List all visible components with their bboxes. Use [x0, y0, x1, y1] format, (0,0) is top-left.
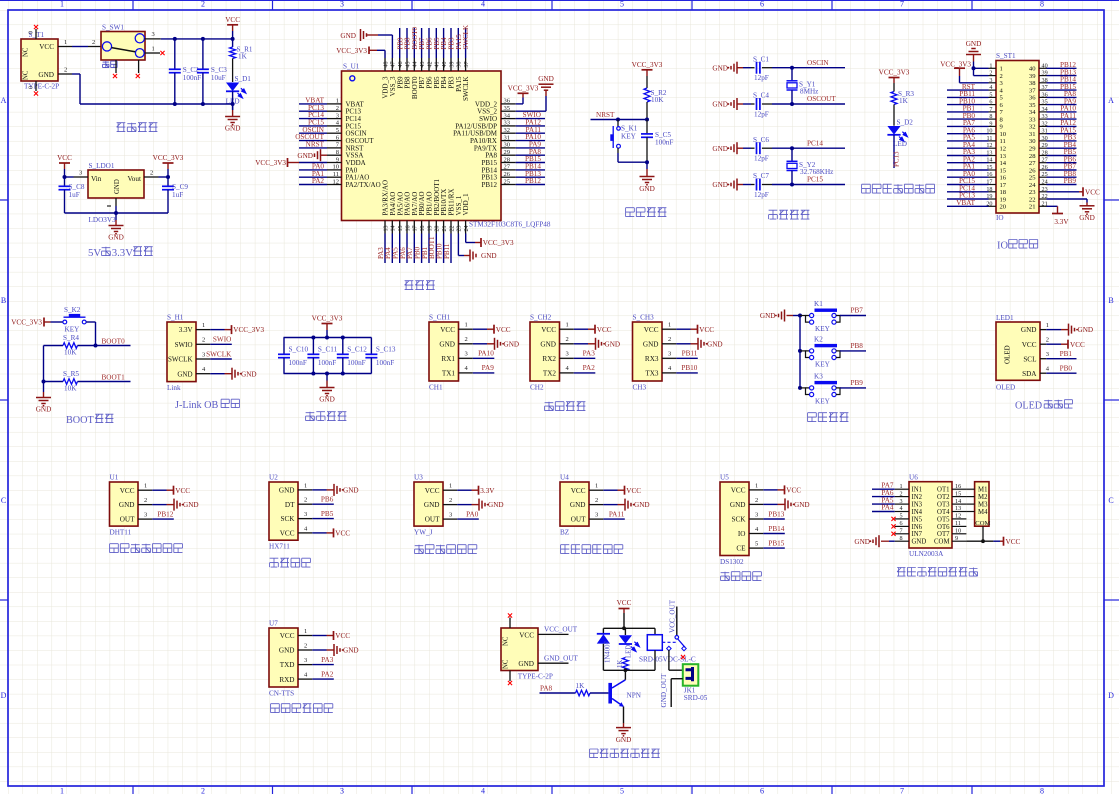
wire collector to relay rail: [624, 670, 626, 680]
wire and net label PA9: [516, 147, 545, 149]
svg-text:1: 1: [60, 787, 64, 794]
U1 left pin 12 PA2/TX/AO: [327, 184, 342, 186]
svg-text:7: 7: [900, 528, 903, 535]
wire and net label PA7: [947, 125, 989, 127]
svg-text:GND: GND: [488, 501, 504, 509]
svg-text:OT5: OT5: [937, 516, 950, 523]
U5 pin 4 IO: [749, 533, 763, 535]
wire and net label PA10: [516, 140, 545, 142]
wire PC14: [772, 147, 845, 149]
svg-text:U4: U4: [560, 474, 569, 482]
capacitor C5 100nF: [646, 120, 648, 134]
zone ticks and numbers top: [132, 0, 134, 10]
wire and net label PA0: [947, 176, 989, 178]
svg-text:PA2: PA2: [583, 364, 596, 372]
wire and net label PA6: [947, 133, 989, 135]
svg-text:U3: U3: [414, 474, 423, 482]
U6 pin 7 IN7: [895, 533, 909, 535]
U1 top pin 45 PB8: [406, 58, 408, 71]
svg-text:PA3: PA3: [321, 656, 334, 664]
no-connect marker: [891, 532, 895, 536]
svg-text:PA11: PA11: [609, 510, 625, 518]
svg-text:ULN2003A: ULN2003A: [909, 550, 944, 558]
ST1 pin 23 right: [1039, 191, 1047, 193]
wire and net label PB5: [1047, 155, 1077, 157]
U3 pin 2 GND: [443, 504, 457, 506]
U4 pin 1 VCC: [589, 489, 603, 491]
svg-text:10K: 10K: [64, 349, 77, 357]
svg-text:1: 1: [60, 0, 64, 9]
filter top rail: [284, 337, 372, 339]
connector T1 TYPE-C-2P body: [21, 39, 58, 81]
svg-text:RX2: RX2: [542, 355, 556, 363]
S_CH2 pin 2 GND: [560, 343, 574, 345]
wire SW1 pin3 to VCC rail: [161, 38, 233, 40]
svg-text:SWIO: SWIO: [175, 341, 193, 349]
svg-text:1K: 1K: [899, 97, 909, 105]
U1 bottom pin 23 VSS_1: [457, 221, 459, 234]
wire and net label PB8: [406, 28, 408, 58]
wire and net label PA9: [473, 372, 495, 374]
svg-text:S_K1: S_K1: [621, 125, 638, 133]
ground symbol power circuit: [232, 104, 234, 110]
svg-text:GND: GND: [183, 501, 199, 509]
svg-text:PA4: PA4: [881, 504, 894, 512]
push button K3: [800, 387, 806, 389]
wire and net label PB3: [1047, 140, 1077, 142]
ground at U2 pin 1: [312, 489, 326, 491]
svg-text:1N4007: 1N4007: [604, 640, 611, 663]
svg-text:3.3V: 3.3V: [480, 487, 495, 495]
ST1 pin 24 right: [1039, 184, 1047, 186]
ST1 pin 1 left: [989, 67, 997, 69]
LED1 pin 3 SCL: [1040, 358, 1046, 360]
svg-text:CH3: CH3: [633, 384, 647, 392]
title 语音播报模块: [271, 704, 280, 713]
svg-text:VCC: VCC: [175, 487, 190, 495]
svg-text:14: 14: [1000, 160, 1007, 167]
svg-text:KEY: KEY: [815, 325, 831, 333]
svg-text:5V: 5V: [88, 247, 101, 259]
svg-text:NC: NC: [503, 659, 510, 669]
regulator LDO1 body: [88, 170, 144, 198]
ST1 pin 11 left: [989, 140, 997, 142]
svg-text:GND: GND: [854, 538, 870, 546]
ST1 pin 28 right: [1039, 155, 1047, 157]
U6 pin 16 OT1: [952, 488, 966, 490]
wire U1 pin 24 VDD_1 to VCC_3V3: [465, 234, 467, 243]
svg-text:PA2/TX/AO: PA2/TX/AO: [346, 181, 381, 189]
U7 pin 2 GND: [298, 649, 312, 651]
svg-text:CE: CE: [736, 545, 746, 553]
svg-text:VCC_OUT: VCC_OUT: [669, 599, 677, 633]
S_H1 pin 1 3.3V: [196, 329, 210, 331]
ST1 pin 7 left: [989, 111, 997, 113]
wire and net label PA10: [473, 357, 495, 359]
U7 pin 1 VCC: [298, 635, 312, 637]
U5 pin 1 VCC: [749, 489, 763, 491]
svg-text:1: 1: [465, 322, 468, 329]
svg-text:5: 5: [620, 787, 624, 794]
wire BOOT0 net: [78, 345, 131, 347]
svg-text:1: 1: [595, 483, 598, 490]
svg-text:2: 2: [900, 490, 903, 497]
S_CH3 pin 4 TX3: [662, 372, 676, 374]
svg-text:VCC: VCC: [335, 530, 350, 538]
svg-text:GND: GND: [279, 487, 295, 495]
svg-text:13: 13: [383, 226, 389, 232]
wire and net label PB12: [152, 518, 174, 520]
U1 bottom pin 16 PA6/AO: [406, 221, 408, 234]
U1 pin 3 OUT: [138, 518, 152, 520]
T1 pin 2 GND: [58, 73, 72, 75]
ground symbol boot: [43, 382, 45, 393]
wire and net label PA4: [872, 511, 895, 513]
wire and net label PA3: [947, 155, 989, 157]
svg-text:1: 1: [152, 46, 155, 53]
svg-text:PB11: PB11: [682, 350, 698, 358]
svg-text:2: 2: [668, 336, 671, 343]
svg-text:VCC: VCC: [731, 487, 746, 495]
S_CH1 pin 2 GND: [459, 343, 473, 345]
svg-text:40: 40: [1029, 66, 1036, 73]
U6 pin 11 OT6: [952, 525, 966, 527]
svg-text:IN2: IN2: [912, 494, 923, 501]
svg-text:8: 8: [336, 149, 339, 156]
title 主芯片: [405, 281, 414, 290]
wire and net label PA4: [947, 147, 989, 149]
svg-text:1: 1: [144, 483, 147, 490]
svg-text:LED1: LED1: [996, 314, 1014, 322]
wire and net label PB10: [947, 104, 989, 106]
title 四相五线步进电机: [897, 568, 905, 577]
svg-text:47: 47: [391, 62, 397, 68]
title 滤波电路: [306, 412, 315, 421]
svg-text:3: 3: [304, 657, 307, 664]
svg-text:25: 25: [1029, 175, 1036, 182]
svg-text:16: 16: [955, 483, 961, 490]
U6 pin 1 IN1: [895, 488, 909, 490]
U1 right pin 32 PA11/USB/DM: [501, 132, 516, 134]
wire and net label PB11: [676, 357, 698, 359]
svg-text:GND: GND: [712, 145, 728, 153]
svg-text:7: 7: [989, 106, 992, 113]
svg-text:20: 20: [1000, 204, 1007, 211]
module S_CH1 CH1 body: [429, 322, 459, 381]
svg-text:SWIO: SWIO: [213, 336, 231, 344]
svg-text:PC13: PC13: [892, 151, 900, 167]
svg-text:16: 16: [1000, 175, 1007, 182]
U1 left pin 4 PC15: [327, 125, 342, 127]
title 电源电路: [117, 123, 126, 132]
svg-text:PB8: PB8: [851, 342, 864, 350]
svg-text:LED: LED: [626, 645, 633, 658]
wire and net label PA15: [1047, 133, 1077, 135]
wire and net label PA7: [413, 234, 415, 264]
wire and net label PB7: [421, 28, 423, 58]
svg-text:2: 2: [201, 787, 205, 794]
svg-text:RX1: RX1: [441, 355, 455, 363]
U1 bottom pin 14 PA4/AO: [391, 221, 393, 234]
svg-text:42: 42: [427, 62, 433, 68]
relay coil SRD-05VDC-SL-C: [654, 628, 656, 634]
svg-text:S_H1: S_H1: [167, 314, 184, 322]
wire BOOT1 net: [78, 381, 131, 383]
svg-text:VDD_1: VDD_1: [462, 193, 470, 216]
svg-text:PB7: PB7: [851, 307, 864, 315]
svg-text:3: 3: [304, 511, 307, 518]
U1 bottom pin 21 PB10/TX: [443, 221, 445, 234]
wire and net label PC15: [947, 184, 989, 186]
svg-text:3: 3: [595, 512, 598, 519]
svg-text:1: 1: [304, 628, 307, 635]
svg-text:2: 2: [304, 642, 307, 649]
svg-text:GND: GND: [707, 340, 723, 348]
svg-text:10uF: 10uF: [211, 74, 226, 82]
svg-text:TYPE-C-2P: TYPE-C-2P: [518, 673, 553, 681]
ST1 pin 8 left: [989, 118, 997, 120]
svg-text:6: 6: [989, 99, 992, 106]
capacitor C9 1uF: [167, 177, 169, 186]
U1 top pin 41 PB5: [435, 58, 437, 71]
power port VCC at S_CH3 pin 1: [676, 328, 690, 330]
svg-text:22: 22: [449, 226, 455, 232]
svg-text:10: 10: [955, 528, 961, 535]
wire and net label PA9: [1047, 104, 1077, 106]
wire and net label SWIO: [516, 118, 545, 120]
svg-text:K1: K1: [814, 300, 823, 308]
U1 top pin 44 BOOT0: [413, 58, 415, 71]
svg-text:4: 4: [481, 787, 485, 794]
svg-text:14: 14: [391, 226, 397, 232]
svg-text:11: 11: [1000, 138, 1006, 145]
svg-text:PA2: PA2: [321, 670, 334, 678]
svg-text:SWCLK: SWCLK: [462, 25, 470, 50]
wire and net label SWIO: [210, 343, 232, 345]
ground at U1 pin 2: [152, 504, 166, 506]
svg-text:1: 1: [900, 483, 903, 490]
svg-text:C: C: [1, 496, 6, 505]
svg-text:8: 8: [989, 113, 992, 120]
ST1 pin 3 left: [989, 82, 997, 84]
title 液位检测模块: [415, 545, 424, 554]
svg-text:27: 27: [504, 164, 511, 171]
ST1 pin 13 left: [989, 155, 997, 157]
svg-text:12pF: 12pF: [754, 191, 769, 199]
U1 top pin 46 PB9: [399, 58, 401, 71]
ground at ST1 pins 1-2: [966, 54, 981, 56]
wire and net label PB10: [443, 234, 445, 264]
svg-text:35: 35: [504, 105, 511, 112]
svg-text:39: 39: [449, 62, 455, 68]
power port VCC at ST1 pin 23: [1047, 191, 1080, 193]
svg-text:IO: IO: [738, 530, 746, 538]
svg-text:KEY: KEY: [65, 326, 81, 334]
wire and net label PA0: [457, 518, 479, 520]
header ST1 body: [996, 61, 1039, 214]
svg-text:11: 11: [333, 171, 339, 178]
SW1 pin 3: [144, 38, 160, 40]
svg-text:24: 24: [464, 226, 470, 232]
svg-text:1: 1: [304, 482, 307, 489]
svg-text:37: 37: [1029, 87, 1036, 94]
svg-text:5: 5: [336, 127, 339, 134]
svg-text:GND: GND: [1021, 326, 1037, 334]
svg-text:VCC: VCC: [699, 326, 714, 334]
title 红外避障模块: [561, 545, 570, 554]
svg-text:NC: NC: [23, 47, 30, 57]
U3 pin 3 OUT: [443, 518, 457, 520]
svg-text:PB1: PB1: [1060, 350, 1073, 358]
U5 pin 3 SCK: [749, 518, 763, 520]
svg-text:3: 3: [449, 512, 452, 519]
wire relay NO contact to JK1: [668, 650, 670, 670]
key bus wire: [799, 316, 801, 388]
svg-text:B: B: [1108, 296, 1113, 305]
svg-text:K3: K3: [814, 372, 823, 380]
transistor NPN: [608, 683, 612, 704]
T2 bottom no-connect pin: [509, 671, 511, 682]
svg-text:VCC_3V3: VCC_3V3: [940, 61, 971, 69]
svg-text:PA8: PA8: [540, 684, 553, 692]
svg-text:COM: COM: [975, 520, 990, 527]
wire and net label PB0: [1046, 372, 1076, 374]
svg-text:S_ST1: S_ST1: [996, 52, 1016, 60]
ST1 pin 9 left: [989, 125, 997, 127]
U6 pin 3 IN3: [895, 503, 909, 505]
wire and net label PB14: [763, 533, 785, 535]
svg-text:SCK: SCK: [281, 515, 296, 523]
svg-text:10: 10: [333, 164, 340, 171]
wire and net label PB9: [840, 387, 866, 389]
svg-text:S_C12: S_C12: [347, 345, 367, 353]
svg-text:S_C13: S_C13: [376, 345, 396, 353]
title 按键电路: [808, 413, 817, 422]
svg-text:GND: GND: [38, 71, 54, 79]
svg-text:9: 9: [989, 120, 992, 127]
svg-text:5: 5: [989, 91, 992, 98]
svg-text:GND: GND: [504, 340, 520, 348]
svg-text:A: A: [1108, 96, 1114, 105]
svg-text:2: 2: [1046, 337, 1049, 344]
module U5 DS1302 body: [720, 482, 749, 556]
no-connect marker: [891, 524, 895, 528]
svg-text:1K: 1K: [617, 660, 624, 668]
ST1 pin 32 right: [1039, 125, 1047, 127]
ground at U4 pin 2: [603, 504, 617, 506]
wire and net label PA2: [947, 162, 989, 164]
ground at ST1 pin 22: [1047, 198, 1088, 200]
resistor R1 1K: [232, 39, 234, 47]
wire and net label PA8: [516, 154, 545, 156]
svg-text:15: 15: [398, 226, 404, 232]
svg-text:39: 39: [1029, 73, 1036, 80]
U1 bottom pin 18 PB0/AO: [421, 221, 423, 234]
wire and net label PC14: [299, 118, 327, 120]
svg-text:GND: GND: [639, 185, 655, 193]
U1 top pin 42 PB6: [428, 58, 430, 71]
wire GND return rail: [72, 73, 80, 75]
svg-text:PA10: PA10: [478, 350, 494, 358]
svg-text:1: 1: [336, 98, 339, 105]
wire and net label PB0: [421, 234, 423, 264]
ST1 pin 5 left: [989, 96, 997, 98]
svg-text:16: 16: [405, 226, 411, 232]
svg-text:PC15: PC15: [807, 176, 823, 184]
svg-text:GND: GND: [634, 501, 650, 509]
svg-text:GND_OUT: GND_OUT: [544, 655, 579, 663]
U1 right pin 30 PA9/TX: [501, 147, 516, 149]
U1 right pin 27 PB14: [501, 169, 516, 171]
svg-text:3: 3: [340, 787, 344, 794]
title 程序运行指示灯: [862, 184, 871, 193]
svg-text:48: 48: [383, 62, 389, 68]
resistor R5 10K: [44, 381, 64, 383]
svg-text:9: 9: [955, 535, 958, 542]
wire and net label PA6: [406, 234, 408, 264]
capacitor C4 12pF: [751, 103, 755, 105]
power port 3.3V at ST1 pin 21: [1047, 205, 1058, 207]
svg-text:2: 2: [465, 336, 468, 343]
svg-text:1: 1: [64, 39, 67, 46]
U1 right pin 31 PA10/RX: [501, 140, 516, 142]
svg-text:36: 36: [1029, 95, 1036, 102]
svg-text:4: 4: [900, 505, 903, 512]
svg-text:3: 3: [755, 511, 758, 518]
svg-text:J-Link OB: J-Link OB: [175, 400, 219, 411]
wire motor COM to VCC: [982, 526, 984, 541]
wire and net label PB13: [763, 518, 785, 520]
svg-text:12pF: 12pF: [754, 111, 769, 119]
push button K1 reset: [617, 120, 619, 127]
svg-text:2: 2: [989, 70, 992, 77]
svg-text:GND: GND: [570, 501, 586, 509]
svg-text:VCC: VCC: [39, 43, 54, 51]
title 时钟模块: [721, 572, 730, 581]
ground symbol reset: [646, 162, 648, 169]
U6 pin 5 IN5: [895, 518, 909, 520]
wire and net label PA0: [299, 169, 327, 171]
svg-text:CH2: CH2: [530, 384, 544, 392]
U1 right pin 33 PA12/USB/DP: [501, 125, 516, 127]
U1 right pin 29 PA8: [501, 154, 516, 156]
power port VCC_3V3 filter: [322, 323, 333, 325]
svg-text:KEY: KEY: [815, 398, 831, 406]
svg-text:3.3V: 3.3V: [179, 326, 193, 334]
svg-text:IN7: IN7: [912, 531, 923, 538]
capacitor C13 100nF: [370, 338, 372, 355]
wire and net label PA15: [457, 28, 459, 58]
wire and net label PB3: [450, 28, 452, 58]
relay bottom rail: [603, 669, 655, 671]
svg-text:100nF: 100nF: [376, 359, 394, 367]
svg-text:25: 25: [504, 178, 511, 185]
wire and net label PA6: [872, 496, 895, 498]
ground at U5 pin 2: [763, 503, 777, 505]
U1 bottom pin 17 PA7/AO: [413, 221, 415, 234]
wire and net label PA11: [603, 518, 625, 520]
wire and net label PB13: [1047, 75, 1077, 77]
connector JK1 body: [683, 664, 699, 686]
U1 left pin 2 PC13: [327, 110, 342, 112]
svg-text:VCC: VCC: [626, 487, 641, 495]
SW1 contacts: [102, 42, 111, 51]
svg-text:OUT: OUT: [571, 516, 586, 524]
power port VCC at U4 pin 1: [603, 489, 617, 491]
ST1 pin 26 right: [1039, 169, 1047, 171]
module LED1 OLED body: [996, 322, 1040, 380]
svg-text:2: 2: [595, 497, 598, 504]
